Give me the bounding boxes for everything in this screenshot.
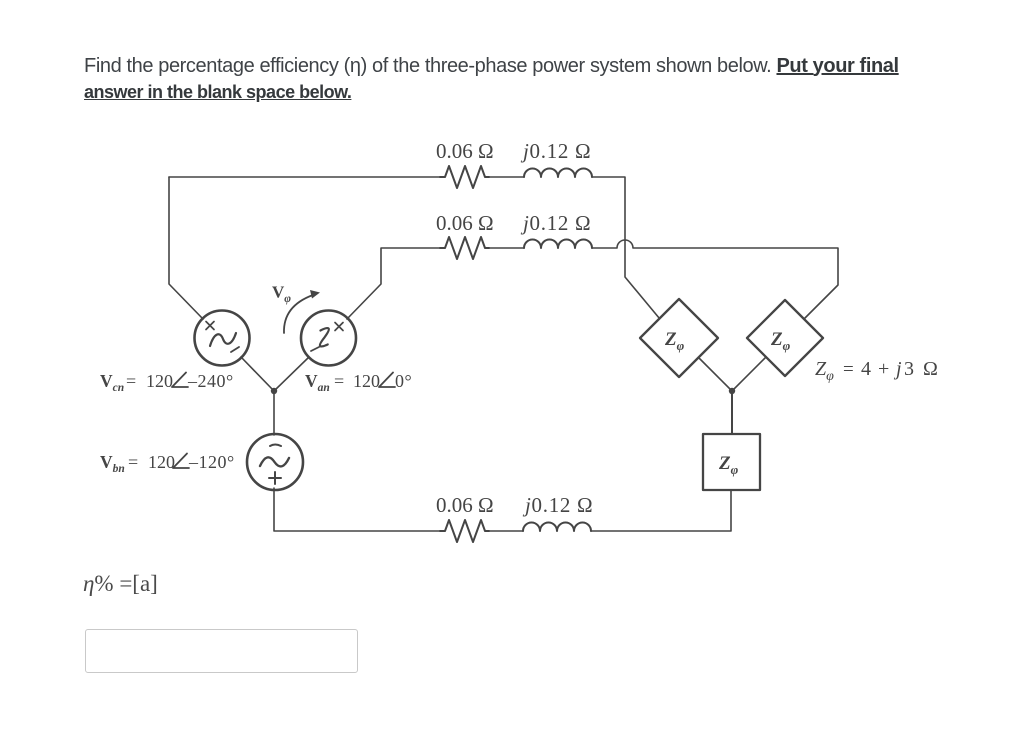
svg-text:Zφ: Zφ (664, 329, 685, 353)
Van sine mark (320, 328, 329, 347)
Van x polarity mark (335, 323, 343, 331)
svg-text:120: 120 (146, 371, 173, 391)
load impedance Z phi (bottom square box) (703, 434, 760, 490)
arrowhead of Vphi arc (310, 290, 320, 299)
inductor j0.12 ohm (phase a line) (524, 169, 592, 178)
svg-text:j0.12 Ω: j0.12 Ω (520, 139, 591, 163)
wire: between resistor and inductor (phase a) (489, 176, 524, 178)
wire: phase-b second line left rise from source (347, 248, 440, 319)
svg-text:Zφ: Zφ (718, 453, 739, 477)
AC source Vbn (247, 434, 303, 490)
resistor 0.06 ohm (phase b line) (440, 237, 489, 259)
wire: neutral to Vbn (273, 391, 275, 435)
wire: right diamond to load neutral (732, 357, 766, 391)
wire: phase-a top line left segment (169, 176, 440, 178)
label j0.12 ohm phase a (520, 139, 591, 163)
inductor j0.12 ohm (phase b line) (524, 240, 592, 249)
wire: phase b line with hop over phase-a drop (592, 240, 838, 319)
svg-text:0°: 0° (395, 371, 412, 391)
node: source neutral junction (271, 388, 277, 394)
svg-text:120: 120 (148, 452, 175, 472)
svg-text:120: 120 (353, 371, 380, 391)
Vbn sine mark (260, 457, 289, 466)
wire: left diamond to load neutral (699, 358, 733, 392)
svg-text:–120°: –120° (188, 452, 235, 472)
label Z phi = 4 + j3 ohm (815, 358, 938, 384)
wire: between resistor and inductor (phase b) (489, 247, 524, 249)
inductor j0.12 ohm (phase c bottom line) (523, 523, 591, 532)
svg-text:3: 3 (904, 358, 914, 380)
AC source Van (301, 311, 356, 366)
Vcn x polarity mark (206, 322, 214, 330)
svg-text:Zφ: Zφ (815, 358, 834, 384)
resistor 0.06 ohm (phase c bottom line) (440, 520, 489, 542)
svg-text:+: + (878, 358, 889, 380)
wire: Vbn to bottom line (274, 488, 440, 531)
svg-text:=: = (128, 452, 138, 472)
svg-text:Zφ: Zφ (770, 329, 791, 353)
svg-text:=: = (334, 371, 344, 391)
angle symbol for Vcn (172, 373, 188, 388)
label Z phi in square box (718, 453, 739, 477)
wire: source left lead (to Vcn) (169, 177, 203, 319)
wire: load neutral to Z box (731, 391, 733, 434)
svg-text:0.06 Ω: 0.06 Ω (436, 211, 494, 235)
Vbn minus mark (270, 445, 281, 447)
svg-text:0.06 Ω: 0.06 Ω (436, 139, 494, 163)
label Vcn = 120 angle -240 (100, 371, 234, 394)
arrow: Vphi reference arc (284, 295, 313, 333)
label Vbn = 120 angle -120 (100, 452, 235, 475)
label 0.06 ohm phase b (436, 211, 494, 235)
svg-text:Ω: Ω (923, 358, 938, 380)
AC source Vcn (195, 311, 250, 366)
svg-text:–240°: –240° (187, 371, 234, 391)
angle symbol for Van (379, 373, 395, 388)
svg-text:j0.12 Ω: j0.12 Ω (520, 211, 591, 235)
svg-text:0.06 Ω: 0.06 Ω (436, 493, 494, 517)
Vbn plus mark (269, 472, 281, 484)
svg-text:Vφ: Vφ (272, 283, 291, 306)
Vcn minus mark (231, 347, 239, 352)
load impedance Z phi (right diamond) (747, 300, 823, 376)
label Z phi in right diamond (770, 329, 791, 353)
label Z phi in left diamond (664, 329, 685, 353)
svg-text:Van: Van (305, 371, 330, 394)
label j0.12 ohm phase b (520, 211, 591, 235)
Vcn sine mark (210, 333, 236, 346)
svg-text:=: = (843, 359, 854, 380)
label j0.12 ohm phase c (522, 493, 593, 517)
Van minus mark (311, 347, 319, 351)
svg-text:j0.12 Ω: j0.12 Ω (522, 493, 593, 517)
label 0.06 ohm phase c (436, 493, 494, 517)
label V phi with arrow (272, 283, 291, 306)
svg-text:=: = (126, 371, 136, 391)
label 0.06 ohm phase a (436, 139, 494, 163)
svg-text:4: 4 (861, 358, 871, 380)
load impedance Z phi (left diamond) (640, 299, 718, 377)
wire: between resistor and inductor (phase c) (489, 530, 523, 532)
label Van = 120 angle 0 (305, 371, 412, 394)
node: load neutral junction (729, 388, 735, 394)
wire: bottom line right segment up to load Z (591, 490, 731, 531)
angle symbol for Vbn (173, 454, 189, 469)
wire: Van to neutral node (274, 357, 309, 391)
wire: phase-a line right segment + drop to load (592, 177, 660, 319)
svg-text:Vbn: Vbn (100, 452, 125, 475)
svg-text:Vcn: Vcn (100, 371, 124, 394)
resistor 0.06 ohm (phase a line) (440, 166, 489, 188)
wire: Vcn to neutral node (241, 357, 274, 391)
svg-text:j: j (893, 358, 902, 380)
